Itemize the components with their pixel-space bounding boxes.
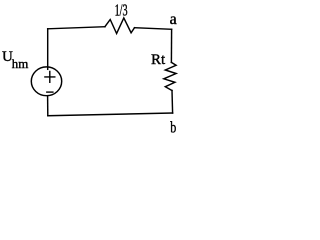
- resistor Rt: [164, 62, 176, 90]
- resistor 1/3: [105, 18, 135, 34]
- svg-text:a: a: [170, 11, 177, 28]
- svg-text:Rt: Rt: [151, 52, 166, 68]
- wire top right segment: [135, 28, 172, 30]
- wire right vertical upper (node a to Rt): [170, 29, 172, 62]
- svg-text:b: b: [170, 120, 176, 137]
- svg-text:hm: hm: [12, 56, 29, 71]
- wire left vertical bottom (source to bottom wire): [47, 96, 49, 116]
- plus sign: [45, 72, 55, 83]
- voltage source U_hm circle: [31, 67, 61, 96]
- minus sign: [47, 91, 53, 93]
- wire bottom: [48, 113, 173, 116]
- wire left vertical (source to top-left corner): [47, 29, 49, 70]
- wire right vertical lower (Rt to node b): [171, 91, 174, 114]
- wire top left segment: [48, 27, 105, 29]
- svg-text:1/3: 1/3: [115, 1, 128, 20]
